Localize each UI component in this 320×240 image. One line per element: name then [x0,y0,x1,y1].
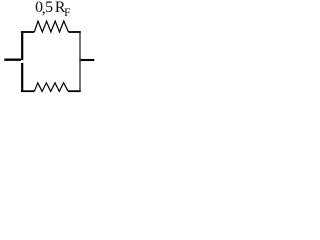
resistor bottom zigzag [34,83,68,92]
value label 0,5RF [35,0,70,21]
wire top branch right segment [69,31,81,33]
wire bottom branch right segment [68,90,81,92]
wire left rail upper [21,31,23,60]
terminal stub left [4,59,21,61]
wire top branch left segment [21,31,34,33]
wire right rail [79,31,81,92]
terminal stub right [79,59,94,61]
wire left rail lower [21,63,23,92]
resistor top 0,5RF zigzag [34,21,68,32]
wire bottom branch left segment [21,90,35,92]
